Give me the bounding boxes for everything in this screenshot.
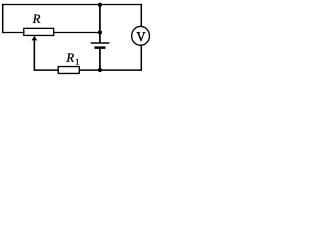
wire: battery branch vertical from bottom plate to bottom bus <box>99 48 101 70</box>
resistor R1 <box>58 67 79 74</box>
label R1 <box>66 53 74 61</box>
wire: left lead into rheostat R left terminal <box>2 32 25 34</box>
wire: bottom bus from wiper stem to bottom-right corner <box>34 69 142 71</box>
node: junction dot of battery branch on bottom bus <box>98 68 102 72</box>
resistor R (rheostat body) <box>24 28 54 35</box>
wire: rheostat R right terminal lead to battery branch node <box>54 32 101 34</box>
wire: top bus from top-left corner to top-right corner <box>2 4 142 6</box>
wire: wiper stem down to bottom bus <box>33 40 35 71</box>
voltmeter V1 letter <box>137 32 146 41</box>
label R <box>33 15 41 23</box>
wire: right wall from top bus down to voltmeter top <box>140 4 142 28</box>
wire: left wall from top bus down to rheostat R lead <box>2 4 4 33</box>
wiper arrow of rheostat R <box>32 36 38 41</box>
node: junction dot of battery branch on top bus <box>98 3 102 7</box>
battery cell: long positive plate <box>91 42 110 44</box>
wire: right wall from voltmeter bottom down to bottom bus <box>140 44 142 70</box>
node: junction dot of R lead on battery branch <box>98 30 102 34</box>
wire: battery branch vertical from top bus to battery top plate <box>99 4 101 43</box>
voltmeter V1 body <box>132 26 150 45</box>
battery cell: short thick negative plate <box>94 46 105 49</box>
